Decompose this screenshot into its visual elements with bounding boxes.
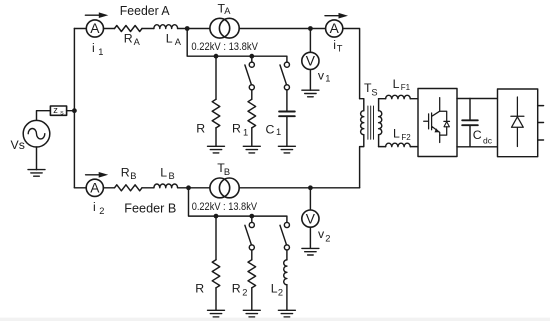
node before TA	[185, 26, 190, 31]
svg-text:1: 1	[325, 74, 330, 84]
node v1 tap	[308, 26, 313, 31]
output stub 2	[538, 122, 544, 124]
wire v1 to ground	[309, 70, 311, 91]
svg-text:v: v	[318, 227, 325, 241]
svg-text:C: C	[473, 128, 482, 142]
resistor R (feeder A load)	[212, 99, 220, 128]
svg-text:L: L	[160, 166, 167, 180]
node v2 tap	[308, 185, 313, 190]
wire v2 to ground	[309, 227, 311, 248]
ground under v2	[302, 248, 319, 255]
wire feeder A left	[74, 28, 86, 30]
svg-text:2: 2	[278, 288, 283, 298]
wire bus A	[187, 29, 287, 62]
freewheel diode D1	[440, 111, 450, 135]
ground under R (B)	[208, 310, 225, 317]
converter box U1	[418, 89, 457, 157]
ammeter A iT	[326, 20, 343, 37]
transformer TS right winding	[378, 99, 380, 111]
ground under C1	[278, 146, 295, 153]
wire	[142, 187, 154, 189]
svg-text:1: 1	[276, 127, 281, 137]
wire bus B	[189, 188, 287, 222]
wire	[103, 187, 114, 189]
transformer TA	[210, 18, 230, 38]
wire C1 to ground	[286, 117, 288, 146]
switch S1	[251, 56, 253, 62]
wire Zs to main bus	[67, 110, 75, 112]
svg-text:R: R	[195, 282, 204, 296]
wire	[178, 187, 210, 189]
svg-text:i: i	[92, 41, 95, 55]
wire	[142, 28, 154, 30]
switch S4	[286, 221, 288, 223]
arrow current direction i2	[86, 174, 99, 176]
svg-text:2: 2	[99, 206, 104, 216]
svg-text:A: A	[134, 37, 141, 47]
capacitor C1	[279, 112, 295, 117]
svg-text:A: A	[90, 181, 100, 196]
wire TB to TS return	[239, 187, 359, 189]
svg-text:A: A	[224, 6, 231, 16]
node bus A load R1	[249, 54, 254, 59]
wire	[104, 28, 115, 30]
wire LF1 to converter	[410, 98, 418, 100]
wire load R drop	[215, 56, 217, 99]
svg-text:T: T	[337, 43, 343, 53]
wire feeder B left	[74, 187, 86, 189]
svg-text:V: V	[306, 211, 316, 226]
inductor LB	[154, 184, 178, 188]
resistor RB	[115, 185, 142, 191]
svg-text:R: R	[232, 122, 241, 136]
transformer TS core	[368, 106, 374, 139]
voltmeter V v2	[302, 210, 319, 227]
switch S2	[286, 61, 288, 63]
node bus A load R	[214, 54, 219, 59]
bottom hairline	[0, 318, 550, 321]
svg-text:B: B	[130, 171, 136, 181]
svg-text:R: R	[124, 32, 133, 46]
ground under Vs	[28, 170, 45, 177]
wire TS to LF1	[379, 98, 386, 100]
ground under L2	[278, 310, 295, 317]
wire switch to C1	[286, 90, 288, 111]
svg-text:0.22kV : 13.8kV: 0.22kV : 13.8kV	[192, 201, 258, 213]
transformer TB	[210, 178, 230, 198]
svg-text:S: S	[371, 87, 377, 97]
transformer TS left winding	[360, 99, 364, 111]
resistor R (feeder B load)	[212, 260, 220, 288]
svg-text:F1: F1	[401, 83, 411, 92]
IGBT Q1	[424, 98, 440, 143]
wire load R drop	[215, 216, 217, 260]
inductor LF1	[386, 95, 411, 98]
svg-text:v: v	[318, 68, 325, 82]
svg-text:dc: dc	[483, 135, 493, 145]
output stub 1	[538, 105, 544, 107]
wire R2 to ground	[251, 288, 253, 311]
wire v2 tap	[309, 188, 311, 210]
wire R to ground	[215, 128, 217, 146]
switch S3	[251, 216, 253, 222]
svg-text:s: s	[60, 110, 64, 117]
voltmeter V v1	[302, 52, 319, 69]
wire TA to iT	[239, 28, 325, 30]
wire TS to LF2	[379, 146, 386, 148]
svg-text:C: C	[266, 122, 275, 136]
wire converter to Cdc top	[457, 98, 498, 100]
ground under R2	[243, 310, 260, 317]
svg-text:i: i	[333, 38, 336, 52]
svg-text:Vs: Vs	[11, 138, 25, 152]
wire Vs bottom	[36, 147, 38, 170]
svg-text:2: 2	[325, 233, 330, 243]
rectifier box	[498, 89, 538, 157]
resistor R1	[248, 99, 256, 128]
svg-text:B: B	[224, 167, 230, 177]
wire main vertical bus	[73, 29, 75, 188]
wire Vs top to Zs	[37, 111, 51, 121]
arrow current direction iT	[325, 15, 339, 17]
ammeter A i2	[86, 179, 103, 196]
svg-text:i: i	[93, 200, 96, 214]
inductor LA	[154, 25, 178, 29]
wire switch to R1	[251, 90, 253, 99]
svg-text:1: 1	[98, 47, 103, 57]
wire	[178, 28, 210, 30]
wire iT to TS	[343, 29, 360, 99]
wire R to ground	[215, 288, 217, 311]
resistor R2	[248, 260, 256, 288]
inductor L2	[284, 260, 287, 285]
ground under R1	[243, 146, 260, 153]
wire L2 to ground	[286, 285, 288, 311]
wire switch to R2	[251, 250, 253, 260]
ammeter A i1	[86, 20, 103, 37]
wire v1 tap	[309, 29, 311, 53]
output stub 3	[538, 139, 544, 141]
svg-text:Feeder B: Feeder B	[124, 201, 176, 215]
svg-text:V: V	[306, 54, 316, 69]
resistor RA	[115, 26, 142, 32]
node bus B load R2	[249, 214, 254, 219]
svg-text:L: L	[393, 127, 400, 141]
svg-text:2: 2	[242, 288, 247, 298]
svg-text:A: A	[330, 21, 340, 36]
voltage source Vs	[23, 120, 50, 147]
svg-text:L: L	[393, 77, 400, 91]
svg-text:Feeder A: Feeder A	[120, 4, 170, 18]
svg-text:R: R	[196, 122, 205, 136]
diode D2	[516, 97, 518, 147]
svg-text:L: L	[166, 32, 173, 46]
arrow current direction i1	[85, 14, 98, 16]
svg-text:z: z	[53, 105, 58, 115]
svg-text:A: A	[175, 37, 182, 47]
wire converter to Cdc bottom	[457, 146, 498, 148]
node at Zs junction	[72, 108, 77, 113]
svg-text:F2: F2	[401, 133, 411, 142]
impedance Zs	[50, 106, 66, 115]
svg-text:R: R	[121, 166, 130, 180]
wire switch to L2	[286, 250, 288, 260]
inductor LF2	[386, 143, 411, 146]
svg-text:B: B	[169, 171, 175, 181]
node before TB	[186, 185, 191, 190]
capacitor Cdc	[469, 99, 471, 147]
ground under v1	[302, 90, 319, 97]
svg-text:L: L	[271, 282, 278, 296]
svg-text:0.22kV : 13.8kV: 0.22kV : 13.8kV	[191, 41, 258, 53]
wire LF2 to converter	[410, 146, 418, 148]
wire R1 to ground	[251, 128, 253, 146]
svg-text:1: 1	[243, 128, 248, 138]
svg-text:A: A	[90, 21, 100, 36]
svg-text:R: R	[232, 282, 241, 296]
ground under R	[208, 146, 225, 153]
node bus B load R	[214, 214, 219, 219]
